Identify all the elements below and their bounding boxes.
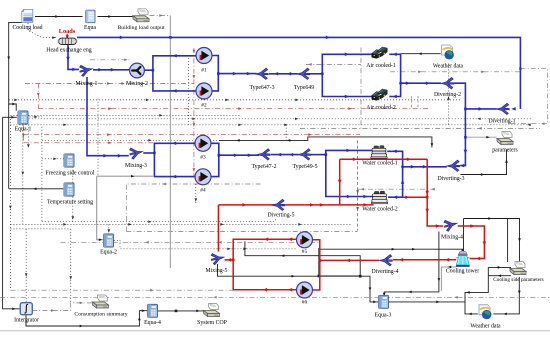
svg-text:Mixing-1: Mixing-1 — [76, 81, 98, 87]
wire red dash-dot bus y108.6 — [38, 107, 430, 110]
svg-text:Equa: Equa — [84, 25, 96, 31]
wire bus to cooling side parameters — [464, 217, 521, 262]
valve Diverting-4 — [379, 255, 392, 266]
wire blue diverting-2 out — [454, 83, 467, 167]
wire dash-dot y297.3 — [0, 296, 550, 299]
wire box to equa-3 — [245, 241, 360, 276]
wire tower up to bus — [463, 219, 465, 250]
svg-text:Mixing-5: Mixing-5 — [206, 268, 228, 274]
calculator Equa-3 — [379, 295, 389, 308]
wire dash-dot y242.3 — [61, 241, 320, 244]
svg-text:#5: #5 — [302, 249, 308, 255]
wire blue planes2 mid — [271, 153, 299, 157]
wire building output dash-dot — [150, 14, 171, 17]
wire dotted equa-2 out — [114, 240, 296, 250]
wire blue to type647-2 — [218, 153, 260, 157]
svg-text:Equa-4: Equa-4 — [144, 320, 161, 326]
wire dash-dot type649 control — [306, 63, 361, 66]
wire gray dash-dot y128.4 — [300, 127, 540, 130]
svg-text:#6: #6 — [302, 300, 308, 306]
svg-text:#2: #2 — [201, 103, 207, 109]
wire dotted bus y228.9 — [10, 228, 70, 230]
svg-text:Air cooled-1: Air cooled-1 — [366, 63, 396, 69]
valve Type647-2 — [257, 149, 270, 160]
cooling tower Cooling tower — [456, 250, 470, 267]
valve Diverting-1 — [496, 103, 509, 114]
wire dotted vert x41.9 — [41, 127, 43, 222]
wire temperature setting out — [9, 187, 63, 190]
wire dotted vert x10.4 — [9, 119, 12, 290]
pump #5 — [297, 232, 313, 248]
document Equa — [86, 10, 96, 23]
wire gray vert to equa-2 — [97, 176, 104, 241]
wire blue to type647-3 — [217, 72, 257, 76]
wire dotted bus y224.4 — [10, 223, 351, 226]
svg-text:Freezing side control: Freezing side control — [46, 171, 95, 177]
svg-text:Intergrator: Intergrator — [14, 318, 39, 324]
wire dotted vert x72.8 — [71, 167, 74, 222]
valve Type649 — [297, 68, 310, 79]
wire red pump5 branch — [232, 238, 296, 292]
wire blue to diverting-1 — [464, 107, 497, 111]
valve Mixing-4 — [443, 218, 458, 232]
wire dotted bus y124.8 — [10, 123, 531, 126]
wire equa to building load output — [98, 15, 133, 18]
wire blue pumps12 out — [212, 56, 218, 91]
wire dotted bus y100 — [9, 99, 462, 102]
svg-text:Cooling load: Cooling load — [12, 25, 42, 31]
svg-text:Diverting-3: Diverting-3 — [437, 176, 464, 182]
wire dotted freezing input — [42, 157, 64, 160]
chiller Water cooled-2 — [371, 191, 387, 204]
svg-text:Type647-2: Type647-2 — [251, 164, 276, 170]
rotor Mixing-2 — [130, 63, 145, 78]
wire weather-2 right link — [493, 277, 520, 315]
pump #4 — [195, 169, 211, 185]
svg-text:System COP: System COP — [197, 320, 227, 326]
svg-text:Type649-5: Type649-5 — [292, 164, 317, 170]
calculator Freezing side control — [64, 154, 74, 167]
svg-text:#1: #1 — [201, 68, 207, 74]
valve Mixing-1 — [79, 63, 94, 77]
wire dash-dot box bottom — [126, 230, 357, 232]
valve Type647-3 — [255, 68, 268, 79]
wire blue top main — [77, 36, 520, 111]
pump #3 — [195, 135, 211, 151]
valve Type649-5 — [298, 149, 311, 160]
integrator Intergrator — [20, 303, 32, 315]
svg-text:Diverting-2: Diverting-2 — [434, 92, 461, 98]
wire intergrator to consumption — [32, 302, 93, 312]
svg-text:Weather data: Weather data — [470, 324, 501, 330]
wire gray trunk x170.4 — [169, 16, 171, 269]
wire blue type649-5 out — [311, 154, 326, 156]
wire equa-4 to system cop — [158, 310, 204, 313]
wire weather-2 to parameters — [488, 266, 511, 269]
wire red dash-dot equa-1 drop — [22, 125, 25, 142]
wire blue aircooled right — [389, 53, 400, 99]
wire dash-dot y189.2 — [358, 188, 435, 191]
svg-text:Type647-3: Type647-3 — [249, 85, 274, 91]
wire cooling load to equa — [35, 15, 83, 18]
wire red tower right — [458, 224, 487, 260]
wire dotted vert x188.7 — [188, 58, 190, 125]
wire weather-1 link — [401, 52, 441, 55]
wire dotted equa-1 down — [21, 125, 24, 225]
wire red wc left — [338, 159, 342, 205]
wire red pumps56 out — [313, 240, 320, 290]
wire pumps out bus — [318, 248, 361, 277]
calculator Equa-4 — [148, 304, 158, 317]
wire dash-dot y290.2 — [10, 289, 233, 292]
wire dash-dot diverting-1 loop — [508, 67, 548, 125]
wire red wc top — [340, 158, 428, 162]
wire blue planes mid — [269, 72, 298, 76]
wire blue header1 — [152, 54, 196, 93]
valve Mixing-3 — [129, 146, 144, 160]
wire blue pumps34 out — [210, 143, 219, 176]
printer Building load output — [133, 9, 149, 22]
valve Diverting-5 — [272, 199, 285, 210]
svg-text:parameters: parameters — [492, 148, 518, 154]
wire red dash-dot vert x38.3 — [37, 84, 40, 109]
wire diverting-3 to parameters — [461, 150, 508, 176]
wire red loads arrow — [66, 34, 69, 39]
wire intergrator bus — [26, 309, 147, 327]
wire dotted equa-2 top — [107, 224, 110, 233]
pump #2 — [196, 83, 212, 99]
wire equa-3 out — [389, 301, 466, 304]
heat exchanger Head exchange eng — [58, 38, 78, 44]
wire dotted bus y118.8 — [23, 117, 531, 120]
wire dotted consumption feed — [69, 229, 72, 303]
wire dash-dot vert x357.6 — [356, 140, 359, 230]
wire blue mixing1-mixing2 — [93, 68, 129, 72]
valve Diverting-2 — [441, 78, 454, 89]
wire gray parameters feed — [465, 136, 496, 139]
wire blue heatx down — [66, 45, 79, 71]
printer Cooling side parameters — [510, 262, 526, 275]
svg-text:#4: #4 — [200, 188, 206, 194]
wire dotted bus y115.4 — [10, 114, 240, 117]
wire red wc2 right — [403, 195, 428, 199]
wire red to diverting-4 — [319, 259, 379, 263]
wire dotted y140.3 — [42, 139, 224, 142]
wire dash-dot mixing-2 control — [90, 58, 131, 61]
printer Consumption summary — [93, 295, 109, 308]
wire dotted equa-1 right — [29, 116, 42, 119]
svg-text:#3: #3 — [200, 155, 206, 161]
wire dotted cooling load drop — [28, 23, 57, 39]
wire dotted vert x195.8 — [194, 184, 197, 204]
wire bottom gray line — [0, 330, 550, 332]
wire equa-1 left input — [3, 116, 17, 119]
wire mixing-5 drop — [218, 264, 379, 303]
valve Diverting-3 — [447, 160, 460, 171]
wire red to mixing-4 — [425, 159, 443, 227]
svg-text:Mixing-2: Mixing-2 — [126, 81, 148, 87]
wire red mixing-5 feed — [217, 205, 219, 252]
wire vert x507.6 — [507, 218, 509, 262]
calculator Equa-2 — [104, 234, 114, 247]
wire red diverting-5 line — [218, 203, 373, 207]
svg-text:Temperature setting: Temperature setting — [47, 200, 93, 206]
svg-text:Diverting-1: Diverting-1 — [488, 119, 515, 125]
svg-text:Diverting-5: Diverting-5 — [267, 213, 294, 219]
wire dotted equa-1 down2 — [27, 125, 30, 148]
svg-text:Water cooled-2: Water cooled-2 — [362, 207, 398, 213]
weather document Weather data 2 — [479, 305, 491, 320]
chiller Water cooled-1 — [371, 146, 387, 159]
wire gray tower bottom — [441, 266, 456, 291]
printer parameters — [497, 132, 513, 145]
wire dash vert x418 — [417, 96, 419, 109]
svg-text:Equa-2: Equa-2 — [100, 250, 117, 256]
svg-text:Consumption summary: Consumption summary — [74, 312, 127, 318]
svg-text:Mixing-3: Mixing-3 — [125, 163, 147, 169]
wire dotted intergrator top — [25, 229, 28, 303]
wire parameters bottom out — [488, 274, 511, 277]
wire jog line — [219, 137, 433, 148]
wire blue mixing1 drop — [87, 77, 129, 157]
wire cooling load out left — [7, 22, 22, 110]
calculator Temperature setting — [64, 183, 74, 196]
svg-text:Diverting-4: Diverting-4 — [371, 269, 398, 275]
svg-text:Head exchange eng: Head exchange eng — [46, 48, 91, 54]
wire dash vert x411.7 — [411, 96, 413, 109]
wire weather-2 riser — [465, 267, 488, 315]
svg-text:Air cooled-2: Air cooled-2 — [366, 105, 396, 111]
svg-text:Cooling tower: Cooling tower — [446, 269, 479, 275]
wire dotted vert diverting-2 control — [447, 64, 450, 125]
wire blue mixing3 out — [143, 152, 154, 154]
wire dotted bus y221.7 — [42, 218, 277, 223]
wire tower top chain — [320, 248, 464, 253]
svg-text:Weather data: Weather data — [433, 64, 464, 70]
wire red diverting-4 to tower — [393, 258, 456, 262]
wire dotted vert x286.2 — [285, 125, 287, 141]
wire blue watercooled loop — [325, 149, 373, 199]
wire blue type649 out — [309, 73, 322, 75]
wire gray path to equa-2 — [97, 175, 153, 178]
svg-text:Mixing-4: Mixing-4 — [441, 234, 463, 240]
svg-text:Equa-3: Equa-3 — [375, 313, 392, 319]
document Cooling load — [22, 10, 33, 23]
wire red dash-dot vert x193.9 — [193, 48, 196, 177]
valve Mixing-5 — [210, 251, 225, 265]
wire red dash-dot bus y83.5 — [25, 82, 194, 85]
wire blue to diverting-3 — [401, 165, 447, 169]
chiller Air cooled-1 — [372, 47, 388, 59]
pump #1 — [196, 48, 212, 64]
wire red mixing-5 out — [225, 258, 234, 262]
wire dash-dot box — [126, 183, 263, 232]
wire blue aircooled loop — [321, 53, 373, 99]
svg-text:Type649: Type649 — [294, 85, 314, 91]
svg-text:Cooling side parameters: Cooling side parameters — [493, 277, 543, 283]
wire left vert x2.6 — [3, 117, 20, 310]
svg-text:Building load output: Building load output — [117, 25, 165, 31]
wire blue header2 — [153, 142, 195, 179]
svg-text:Equa-1: Equa-1 — [15, 127, 32, 133]
wire mixing-4 drop — [383, 232, 440, 297]
wire dotted vert x98 — [97, 99, 99, 177]
wire dash-dot vert x361 — [360, 48, 362, 129]
calculator Equa-1 — [18, 111, 28, 124]
pump #6 — [297, 282, 313, 298]
wire blue wc right — [387, 150, 404, 199]
wire blue to diverting-2 — [399, 81, 441, 85]
svg-text:Water cooled-1: Water cooled-1 — [362, 161, 398, 167]
wire dash-dot weather control — [390, 70, 520, 73]
wire left bus x8.7 — [8, 104, 10, 189]
chiller Air cooled-2 — [372, 89, 388, 101]
wire blue mixing2 out — [145, 69, 153, 71]
wire red dash-dot y142.8 — [23, 141, 194, 144]
weather document Weather data — [442, 45, 454, 60]
wire red dash-dot y134.6 — [23, 133, 360, 136]
printer System COP — [204, 304, 220, 317]
